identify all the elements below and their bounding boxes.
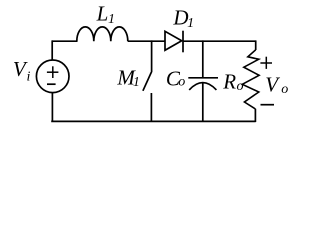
diode D1 cathode bar: [182, 31, 184, 53]
svg-text:i: i: [27, 69, 31, 84]
minus sign inside source: [47, 83, 56, 85]
svg-text:o: o: [281, 82, 288, 97]
capacitor Co bottom lead: [202, 83, 204, 122]
svg-text:R: R: [222, 69, 236, 93]
wire top rail middle segment: [128, 40, 166, 42]
wire left vertical lower: [51, 93, 53, 123]
resistor Ro top lead: [255, 40, 257, 50]
resistor Ro zigzag: [242, 50, 259, 109]
bottom rail: [51, 120, 256, 122]
capacitor Co top lead: [202, 40, 204, 78]
diode D1 triangle: [165, 31, 182, 50]
svg-text:L: L: [96, 2, 109, 26]
wire top rail right segment: [183, 40, 256, 42]
capacitor Co top plate: [188, 77, 218, 79]
voltage source Vi circle: [36, 60, 69, 93]
svg-text:o: o: [237, 79, 244, 94]
capacitor Co curved bottom plate: [189, 83, 216, 90]
resistor Ro bottom lead: [254, 109, 256, 122]
svg-text:V: V: [265, 72, 280, 96]
minus sign Vo: [261, 104, 275, 106]
svg-text:1: 1: [108, 12, 115, 27]
switch M1 bottom lead: [150, 93, 152, 122]
switch M1 blade: [143, 71, 152, 91]
svg-text:o: o: [178, 75, 185, 90]
plus sign Vo: [260, 57, 272, 69]
svg-text:1: 1: [187, 16, 194, 31]
plus sign inside source: [47, 66, 59, 78]
wire left vertical upper (source branch): [51, 40, 53, 60]
wire top rail left segment: [52, 40, 78, 42]
svg-text:1: 1: [133, 75, 140, 90]
switch M1 top lead: [151, 40, 153, 71]
inductor L1: [77, 27, 128, 41]
